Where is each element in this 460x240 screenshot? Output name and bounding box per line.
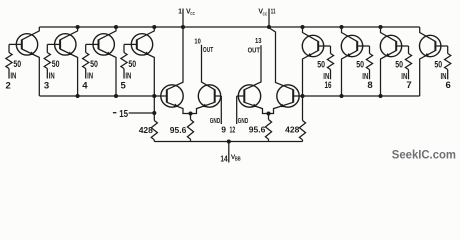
resistor R7 50 ohm — [408, 46, 410, 54]
transistor Q2 (input IN3) — [55, 34, 76, 55]
svg-text:CC: CC — [263, 11, 268, 17]
svg-text:95.6: 95.6 — [249, 124, 266, 134]
wire bottom rail — [154, 141, 302, 143]
pin 1 VCC — [182, 9, 184, 28]
resistor 95.6 (right) — [268, 114, 270, 120]
pin 14 VBB — [228, 142, 230, 163]
wire Q6 collector to VCC rail — [342, 27, 358, 41]
junction pin15 / R428 — [152, 111, 156, 115]
svg-text:3: 3 — [44, 80, 49, 91]
junction on right bus x=380.5 — [378, 94, 382, 98]
junction on VCC rail x=154.3 — [152, 25, 156, 29]
resistor 95.6 (left) — [190, 114, 192, 120]
wire Q1 base — [9, 43, 22, 45]
wire Q4 base — [124, 43, 137, 45]
node A (left bus / pin15 / R428 / Q9 base) — [152, 94, 156, 98]
transistor Q5 (input IN16) — [302, 35, 323, 56]
svg-text:50: 50 — [395, 59, 403, 69]
wire Q3 collector to VCC rail — [99, 27, 117, 40]
pin IN 7 — [408, 70, 410, 80]
wire Q5 emitter to right bus — [303, 51, 319, 96]
pin IN 4 — [85, 69, 87, 79]
svg-text:2: 2 — [6, 80, 11, 91]
transistor Q3 (input IN4) — [93, 34, 114, 55]
transistor Q4 (input IN5) — [131, 34, 152, 55]
svg-text:7: 7 — [406, 80, 411, 91]
svg-text:OUT: OUT — [203, 45, 214, 54]
resistor R1 50 ohm — [8, 44, 10, 52]
svg-text:50: 50 — [317, 59, 325, 69]
wire Q3 emitter to left bus — [99, 49, 117, 96]
wire Q7 emitter to right bus — [381, 51, 397, 96]
svg-text:6: 6 — [446, 80, 451, 91]
transistor Q11 (diff pair B, left) — [238, 85, 260, 107]
svg-text:50: 50 — [434, 59, 442, 69]
pin IN 8 — [369, 70, 371, 80]
resistor R5 50 ohm — [330, 46, 332, 54]
transistor Q1 (input IN2) — [16, 34, 37, 55]
wire right emitter bus — [303, 95, 420, 97]
svg-text:BB: BB — [235, 157, 241, 163]
pin 12 GND — [236, 96, 238, 124]
resistor R6 50 ohm — [369, 46, 371, 54]
svg-text:OUT: OUT — [248, 45, 261, 54]
svg-text:50: 50 — [90, 59, 98, 69]
wire Q2 base — [47, 43, 60, 45]
wire Q12 emitter — [269, 102, 294, 113]
resistor R8 50 ohm — [447, 46, 449, 54]
wire Q9 collector to VCC — [167, 27, 183, 90]
transistor Q12 (diff pair B, right) — [277, 85, 299, 107]
svg-text:GND: GND — [238, 116, 248, 125]
svg-text:428: 428 — [285, 124, 299, 134]
wire Q8 base — [435, 45, 447, 47]
svg-text:50: 50 — [52, 59, 60, 69]
svg-text:8: 8 — [367, 80, 372, 91]
svg-text:428: 428 — [139, 125, 153, 135]
pin IN 3 — [46, 69, 48, 79]
wire Q12 base — [293, 95, 302, 97]
svg-text:IN: IN — [10, 71, 16, 80]
wire Q10 emitter — [191, 102, 215, 113]
svg-text:15: 15 — [119, 109, 128, 120]
svg-text:SeekIC.com: SeekIC.com — [392, 147, 456, 161]
resistor R2 50 ohm — [46, 44, 48, 52]
svg-text:CC: CC — [190, 11, 195, 17]
wire Q8 collector to VCC rail — [420, 27, 436, 41]
wire Q4 collector to VCC rail — [137, 27, 155, 40]
junction on left bus x=116.0 — [114, 94, 118, 98]
svg-text:14: 14 — [220, 154, 228, 163]
wire Q6 base — [357, 45, 369, 47]
wire Q7 base — [396, 45, 408, 47]
svg-text:13: 13 — [255, 36, 262, 45]
junction on VCC rail x=380.5 — [378, 25, 382, 29]
wire Q10 collector to OUT 10 — [202, 45, 215, 90]
pin 11 VCC — [268, 9, 270, 28]
resistor R4 50 ohm — [123, 44, 125, 52]
junction on VCC rail x=183.0 — [181, 25, 185, 29]
svg-text:50: 50 — [356, 59, 364, 69]
svg-text:16: 16 — [325, 80, 332, 91]
pin 15 — [113, 112, 117, 114]
svg-text:50: 50 — [13, 59, 21, 69]
wire Q12 collector to VCC — [269, 28, 293, 90]
transistor Q10 (diff pair A, right) — [198, 85, 220, 107]
wire Q11 base to GND pin 12 — [237, 95, 245, 97]
junction on VCC rail x=341.5 — [339, 25, 343, 29]
wire VCC top rail — [39, 26, 419, 28]
wire Q4 emitter to left bus — [137, 49, 155, 96]
wire left emitter bus — [40, 95, 155, 97]
wire Q5 base — [318, 45, 330, 47]
svg-text:9: 9 — [221, 124, 226, 134]
wire Q3 base — [86, 43, 99, 45]
resistor 428 (left) — [153, 96, 155, 121]
wire Q10 base to GND pin 9 — [215, 95, 222, 97]
wire Q6 emitter to right bus — [342, 51, 358, 96]
transistor Q8 (input IN6) — [420, 35, 441, 56]
wire Q1 emitter to left bus — [22, 49, 40, 96]
transistor Q6 (input IN8) — [341, 35, 362, 56]
svg-text:4: 4 — [82, 80, 88, 91]
junction on VCC rail x=77.6 — [76, 25, 80, 29]
wire Q8 emitter to right bus — [420, 51, 436, 96]
svg-text:10: 10 — [194, 37, 200, 46]
svg-text:95.6: 95.6 — [170, 125, 187, 135]
junction VBB on bottom rail — [227, 139, 231, 143]
pin IN 2 — [8, 69, 10, 79]
svg-text:IN: IN — [87, 71, 93, 80]
wire Q7 collector to VCC rail — [381, 27, 397, 41]
junction on right bus x=341.5 — [339, 94, 343, 98]
transistor Q9 (diff pair A, left) — [161, 85, 183, 107]
junction on VCC rail x=116.0 — [114, 25, 118, 29]
junction on VCC rail x=302.5 — [300, 25, 304, 29]
wire Q9 base — [154, 95, 167, 97]
pin IN 16 — [330, 70, 332, 80]
svg-text:50: 50 — [128, 59, 136, 69]
wire Q9 emitter — [167, 102, 191, 113]
resistor R3 50 ohm — [85, 44, 87, 52]
node common emitters pair B — [266, 111, 270, 115]
svg-text:5: 5 — [121, 80, 127, 91]
node B (right bus / R428 / Q12 base) — [300, 94, 304, 98]
wire Q11 collector to OUT 13 — [244, 45, 261, 89]
wire Q2 emitter to left bus — [60, 49, 78, 96]
resistor 428 (right) — [302, 96, 304, 121]
pin IN 6 — [447, 70, 449, 80]
pin 9 GND — [220, 96, 222, 124]
svg-text:12: 12 — [230, 124, 236, 134]
junction on VCC rail x=269.0 — [267, 25, 271, 29]
node common emitters pair A — [188, 111, 192, 115]
svg-text:1: 1 — [178, 9, 182, 16]
svg-text:GND: GND — [210, 116, 220, 125]
transistor Q7 (input IN7) — [380, 35, 401, 56]
wire Q5 collector to VCC rail — [303, 27, 319, 41]
junction on left bus x=77.6 — [76, 94, 80, 98]
svg-text:IN: IN — [125, 71, 131, 80]
svg-text:IN: IN — [49, 71, 55, 80]
pin IN 5 — [123, 69, 125, 79]
wire Q11 emitter — [244, 102, 268, 113]
wire Q2 collector to VCC rail — [60, 27, 78, 40]
wire Q1 collector to VCC rail — [22, 27, 40, 40]
svg-text:11: 11 — [271, 7, 276, 16]
